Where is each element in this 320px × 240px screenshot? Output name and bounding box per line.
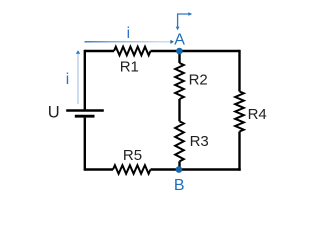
wire left vertical (battery to bottom corner) xyxy=(84,118,86,171)
node B xyxy=(176,166,183,173)
wire right vertical lower lead (R4 to bottom corner) xyxy=(238,132,240,171)
current arrow i (left, pointing up) xyxy=(77,54,79,104)
svg-text:i: i xyxy=(66,71,69,88)
resistor R4 xyxy=(235,92,244,132)
resistor R3 xyxy=(175,121,184,161)
resistor R2 xyxy=(175,63,184,99)
svg-text:R3: R3 xyxy=(190,133,209,150)
svg-text:i: i xyxy=(127,25,130,42)
wire middle branch upper lead (node A to R2) xyxy=(178,51,180,63)
svg-text:R4: R4 xyxy=(248,106,267,123)
loop direction arrow near node A (right and down elbow) xyxy=(178,14,189,27)
svg-text:A: A xyxy=(174,32,185,49)
svg-text:B: B xyxy=(174,177,185,194)
wire right vertical upper lead (top corner to R4) xyxy=(238,50,240,92)
svg-text:U: U xyxy=(48,104,60,122)
wire left vertical (top corner to battery) xyxy=(84,50,86,110)
node A xyxy=(176,48,183,55)
battery U (voltage source) xyxy=(66,109,104,111)
svg-text:R5: R5 xyxy=(123,147,142,164)
wire R3 to node B xyxy=(178,161,180,169)
wire between R2 and R3 xyxy=(178,99,180,121)
wire top (left corner to node A to right corner) xyxy=(85,50,240,52)
resistor R1 xyxy=(114,47,151,56)
svg-text:R2: R2 xyxy=(189,72,208,89)
resistor R5 xyxy=(113,165,151,174)
wire bottom (left corner to node B to right corner) xyxy=(85,168,241,170)
current arrow i (top, pointing right toward A) xyxy=(85,41,172,43)
svg-text:R1: R1 xyxy=(120,59,139,76)
